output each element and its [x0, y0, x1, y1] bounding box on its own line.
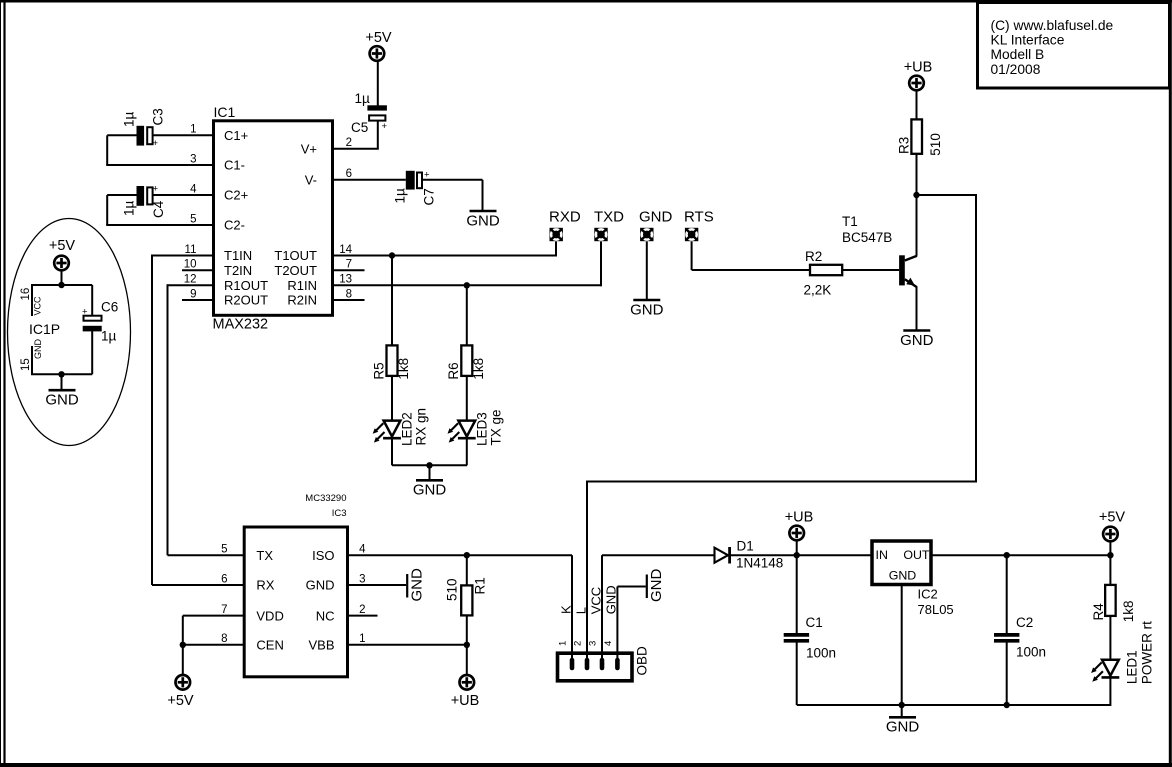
- resistor R6: [446, 345, 486, 379]
- svg-text:16: 16: [20, 288, 32, 301]
- svg-text:R2OUT: R2OUT: [224, 293, 268, 308]
- svg-text:TX: TX: [256, 548, 273, 563]
- wire IC1 pin9 stub: [182, 299, 213, 301]
- svg-text:2: 2: [359, 604, 365, 616]
- svg-text:GND: GND: [648, 569, 665, 603]
- svg-text:R6: R6: [446, 362, 461, 379]
- ground rail: [797, 704, 1111, 706]
- wire to R4: [1109, 555, 1111, 585]
- wire C5 to IC1 pin2 V+: [333, 121, 379, 149]
- svg-text:11: 11: [185, 244, 197, 256]
- svg-text:GND: GND: [306, 578, 335, 593]
- svg-text:T1: T1: [842, 214, 858, 229]
- svg-text:5: 5: [221, 544, 227, 556]
- svg-text:9: 9: [190, 288, 196, 300]
- svg-text:6: 6: [346, 168, 352, 180]
- capacitor C4: [122, 184, 167, 219]
- wire D1 to IC2 IN: [731, 554, 873, 556]
- wire IC3 GND pin3: [348, 584, 407, 586]
- wire L line down: [586, 481, 588, 662]
- svg-text:POWER rt: POWER rt: [1139, 621, 1154, 684]
- svg-text:+UB: +UB: [904, 60, 933, 76]
- ground (C7): [466, 211, 500, 229]
- svg-text:15: 15: [20, 358, 32, 371]
- svg-text:13: 13: [339, 274, 352, 286]
- svg-text:IN: IN: [876, 548, 888, 562]
- capacitor C7: [393, 170, 437, 206]
- svg-text:01/2008: 01/2008: [991, 62, 1041, 77]
- svg-text:VBB: VBB: [308, 638, 334, 653]
- svg-text:GND: GND: [889, 568, 917, 582]
- +UB supply (R1): [451, 675, 480, 709]
- IC1P power pins group ellipse: [8, 219, 131, 446]
- junction R1 top: [464, 552, 470, 558]
- svg-text:MC33290: MC33290: [305, 493, 346, 504]
- svg-text:RTS: RTS: [684, 209, 714, 226]
- wire C7 to ground: [423, 180, 483, 211]
- svg-text:1µ: 1µ: [393, 188, 408, 204]
- svg-text:+5V: +5V: [365, 30, 392, 46]
- svg-text:NC: NC: [316, 608, 335, 623]
- wire IC1 pin6 V- to C7: [333, 179, 406, 181]
- junction VDD/CEN: [180, 642, 186, 648]
- svg-text:R4: R4: [1091, 603, 1106, 621]
- junction rail/C2: [1004, 702, 1010, 708]
- svg-text:C1+: C1+: [224, 128, 248, 143]
- capacitor C1: [784, 615, 836, 661]
- svg-text:Modell B: Modell B: [991, 47, 1045, 62]
- LED LED2 (RX gn): [373, 408, 429, 446]
- svg-text:7: 7: [221, 604, 227, 616]
- IC IC3 MC33290: [244, 493, 347, 677]
- wire K line down: [571, 555, 573, 661]
- wire R6 to LED3: [466, 376, 468, 438]
- svg-text:RXD: RXD: [549, 209, 581, 226]
- wire to ground: [901, 705, 903, 717]
- wire T1OUT to RXD: [333, 242, 556, 257]
- svg-text:2: 2: [573, 641, 584, 646]
- svg-text:3: 3: [588, 641, 599, 646]
- svg-text:3: 3: [359, 573, 365, 585]
- svg-text:RX gn: RX gn: [414, 408, 429, 446]
- wire GND pad down: [646, 242, 648, 300]
- svg-text:V+: V+: [301, 141, 317, 156]
- capacitor C2: [994, 615, 1046, 660]
- svg-text:1N4148: 1N4148: [736, 556, 783, 571]
- svg-text:LED2: LED2: [400, 412, 415, 446]
- svg-text:T2OUT: T2OUT: [274, 263, 317, 278]
- +5V supply (IC1P): [49, 238, 76, 270]
- svg-text:RX: RX: [256, 578, 274, 593]
- junction +UB/C1: [794, 552, 800, 558]
- wire R2 to T1 base: [842, 269, 899, 271]
- svg-text:1k8: 1k8: [471, 358, 486, 380]
- wire RTS to R2: [692, 242, 810, 271]
- wire LED2 to ground rail: [392, 439, 467, 465]
- ground (LEDs): [413, 480, 447, 498]
- svg-text:R2IN: R2IN: [287, 293, 317, 308]
- svg-text:V-: V-: [305, 173, 317, 188]
- wire IC1 pin10 stub: [182, 269, 213, 271]
- OBD pins: [572, 660, 617, 668]
- svg-text:C4: C4: [151, 200, 166, 218]
- svg-text:4: 4: [190, 183, 197, 195]
- svg-text:+UB: +UB: [785, 510, 814, 526]
- svg-text:C6: C6: [101, 300, 118, 315]
- ground (T1 emitter): [900, 331, 934, 349]
- svg-text:+: +: [153, 138, 159, 149]
- svg-text:R5: R5: [371, 362, 386, 379]
- svg-text:T1IN: T1IN: [224, 248, 252, 263]
- IC1 pin names: [224, 128, 317, 308]
- svg-text:D1: D1: [737, 539, 754, 554]
- svg-text:GND: GND: [33, 339, 43, 360]
- svg-text:R1IN: R1IN: [287, 278, 317, 293]
- svg-text:GND: GND: [886, 719, 920, 736]
- svg-text:GND: GND: [466, 212, 500, 229]
- svg-text:C5: C5: [351, 120, 368, 135]
- svg-text:+: +: [82, 307, 88, 318]
- svg-text:R1OUT: R1OUT: [224, 278, 268, 293]
- pad GND: [639, 209, 673, 242]
- capacitor C3: [122, 108, 166, 149]
- svg-text:510: 510: [445, 578, 460, 601]
- ground (RS232): [630, 300, 664, 318]
- junction collector node: [913, 192, 919, 198]
- svg-text:CEN: CEN: [256, 638, 283, 653]
- svg-text:+5V: +5V: [167, 693, 194, 709]
- svg-text:MAX232: MAX232: [213, 317, 269, 333]
- svg-text:KL Interface: KL Interface: [991, 33, 1065, 48]
- wire C1 to rail: [796, 643, 798, 706]
- wire R1: [466, 555, 468, 645]
- svg-text:C2: C2: [1016, 615, 1033, 630]
- svg-text:1: 1: [558, 641, 569, 646]
- wire +UB down: [796, 540, 798, 555]
- svg-text:+: +: [153, 184, 159, 195]
- wire R1OUT to IC3 TX: [168, 284, 245, 555]
- wire to C2: [1006, 555, 1008, 633]
- svg-text:2: 2: [346, 137, 352, 149]
- svg-text:GND: GND: [413, 482, 447, 499]
- wire T1IN to IC3 RX: [152, 255, 244, 586]
- +5V supply (right): [1099, 510, 1126, 542]
- junction IC1P vcc: [58, 282, 64, 288]
- svg-text:LED1: LED1: [1125, 650, 1140, 684]
- wire IC3 VDD to CEN: [183, 616, 244, 645]
- svg-text:OUT: OUT: [903, 548, 930, 562]
- wire T1 emitter: [916, 287, 918, 331]
- svg-text:C7: C7: [422, 188, 437, 205]
- wire IC1P to ground: [61, 374, 63, 389]
- ground (OBD pin4, rotated): [647, 569, 665, 603]
- svg-text:6: 6: [221, 573, 227, 585]
- svg-text:1µ: 1µ: [355, 91, 371, 106]
- junction +5V/R4: [1107, 552, 1113, 558]
- IC1P pins: [20, 284, 92, 375]
- wire +UB to R3: [916, 91, 918, 120]
- svg-text:BC547B: BC547B: [842, 230, 892, 245]
- diode D1 1N4148: [715, 539, 784, 571]
- svg-text:1k8: 1k8: [1121, 601, 1136, 623]
- wire IC3 VBB: [348, 644, 467, 646]
- svg-text:100n: 100n: [1016, 645, 1046, 660]
- svg-text:VDD: VDD: [256, 608, 283, 623]
- svg-text:LED3: LED3: [474, 412, 489, 446]
- resistor R1: [445, 577, 488, 615]
- wire VBB to +UB: [466, 645, 468, 675]
- svg-text:12: 12: [184, 274, 197, 286]
- wire C2 to rail: [1006, 643, 1008, 706]
- pad RTS: [684, 209, 714, 242]
- wire R4 to LED1: [1109, 616, 1111, 677]
- svg-text:8: 8: [346, 288, 352, 300]
- svg-text:+5V: +5V: [49, 238, 76, 254]
- junction R6/R1IN: [464, 282, 470, 288]
- OBD pin numbers: [558, 641, 614, 646]
- wire LED3 to ground rail: [466, 439, 468, 465]
- resistor R4: [1091, 585, 1136, 622]
- title block: [978, 3, 1170, 89]
- svg-text:5: 5: [190, 213, 196, 225]
- IC3 pin numbers: [221, 544, 366, 646]
- svg-text:510: 510: [928, 133, 943, 156]
- svg-text:OBD: OBD: [635, 646, 650, 676]
- svg-text:IC1P: IC1P: [29, 321, 60, 337]
- svg-text:100n: 100n: [806, 646, 836, 661]
- wire VCC line: [602, 555, 715, 661]
- wire collector to L-line: [587, 194, 977, 482]
- svg-text:10: 10: [184, 259, 197, 271]
- svg-text:(C) www.blafusel.de: (C) www.blafusel.de: [991, 18, 1114, 33]
- svg-text:+: +: [382, 121, 388, 132]
- wire R5 to LED2: [391, 376, 393, 438]
- wire R1IN node to R6: [466, 285, 468, 346]
- svg-text:14: 14: [339, 244, 352, 256]
- svg-text:C1-: C1-: [224, 158, 245, 173]
- svg-text:3: 3: [190, 153, 196, 165]
- LED LED3 (TX ge): [448, 409, 504, 446]
- wire to +5V: [182, 645, 184, 675]
- capacitor C6: [82, 300, 118, 344]
- svg-text:GND: GND: [639, 209, 673, 226]
- svg-text:1µ: 1µ: [122, 200, 137, 216]
- svg-text:78L05: 78L05: [918, 602, 954, 617]
- IC IC2 78L05: [872, 541, 954, 617]
- IC3 pin names: [256, 548, 334, 653]
- wire to C1: [796, 555, 798, 633]
- svg-text:T2IN: T2IN: [224, 263, 252, 278]
- wire C4 to IC1 pin4/pin5: [106, 195, 213, 225]
- wire to ground: [429, 465, 431, 480]
- svg-text:C2-: C2-: [224, 218, 245, 233]
- svg-text:4: 4: [359, 544, 366, 556]
- svg-text:1k8: 1k8: [396, 358, 411, 380]
- junction R5/T1OUT: [389, 252, 395, 258]
- svg-text:TX ge: TX ge: [488, 409, 503, 445]
- resistor R3: [896, 119, 942, 155]
- wire IC1 pin7 stub: [333, 269, 365, 271]
- connector OBD: [558, 646, 650, 681]
- IC IC1 MAX232: [213, 104, 333, 333]
- LED LED1 (POWER rt): [1091, 621, 1154, 684]
- wire IC2 GND down: [901, 585, 903, 706]
- wire IC1 pin8 stub: [333, 299, 365, 301]
- wire LED1 to rail: [1109, 678, 1111, 706]
- wire R3 to collector node: [916, 154, 918, 196]
- svg-text:C1: C1: [806, 615, 823, 630]
- svg-text:1µ: 1µ: [101, 329, 117, 344]
- IC1 pin numbers: [184, 124, 353, 301]
- resistor R2: [804, 249, 843, 298]
- svg-text:2,2K: 2,2K: [804, 283, 832, 298]
- junction C2 top: [1004, 552, 1010, 558]
- svg-text:R2: R2: [805, 249, 822, 264]
- ground (IC3 pin3, rotated): [407, 568, 425, 602]
- +UB supply (top): [904, 60, 933, 91]
- svg-text:GND: GND: [900, 332, 934, 349]
- wire +5V to IC1P: [61, 271, 63, 286]
- svg-text:IC3: IC3: [332, 508, 347, 519]
- wire T1OUT node to R5: [391, 256, 393, 347]
- svg-text:GND: GND: [408, 568, 425, 602]
- svg-text:C2+: C2+: [224, 188, 248, 203]
- svg-text:1: 1: [190, 124, 196, 136]
- svg-text:GND: GND: [630, 301, 664, 318]
- +5V supply (top): [365, 30, 392, 61]
- wire IC3 ISO / K-line: [348, 554, 573, 556]
- svg-text:GND: GND: [45, 392, 79, 409]
- wire R1IN to TXD: [333, 242, 601, 287]
- svg-text:8: 8: [221, 633, 227, 645]
- wire C3 to IC1 pin1: [106, 135, 213, 165]
- capacitor C5: [351, 91, 388, 135]
- wire IC2 OUT: [931, 554, 1110, 556]
- wire OBD GND pin4: [617, 587, 645, 662]
- +UB supply (D1): [785, 510, 814, 541]
- junction LED ground: [426, 462, 432, 468]
- svg-text:R3: R3: [896, 137, 911, 154]
- svg-text:R1: R1: [472, 577, 487, 594]
- svg-text:7: 7: [346, 259, 352, 271]
- svg-text:IC2: IC2: [918, 587, 938, 602]
- svg-text:+UB: +UB: [451, 693, 480, 709]
- wire IC3 NC stub: [348, 615, 378, 617]
- svg-text:+5V: +5V: [1099, 510, 1126, 526]
- svg-text:4: 4: [603, 641, 614, 646]
- junction R1 bottom / +UB: [464, 642, 470, 648]
- wire +5V to C5: [377, 61, 379, 106]
- ground (bottom): [886, 717, 920, 735]
- junction rail/IC2 gnd: [899, 702, 905, 708]
- svg-text:1µ: 1µ: [122, 111, 137, 127]
- svg-text:ISO: ISO: [312, 548, 334, 563]
- svg-text:VCC: VCC: [33, 296, 43, 316]
- svg-text:T1OUT: T1OUT: [274, 248, 317, 263]
- transistor T1 BC547B: [842, 214, 917, 287]
- wire +5V down: [1109, 542, 1111, 556]
- +5V supply (IC3): [167, 675, 194, 709]
- junction IC1P gnd: [58, 371, 64, 377]
- svg-text:TXD: TXD: [594, 209, 624, 226]
- pad RXD: [549, 209, 581, 242]
- resistor R5: [371, 345, 411, 379]
- wire T1 collector: [916, 194, 918, 256]
- svg-text:IC1: IC1: [214, 104, 236, 120]
- pad TXD: [594, 209, 624, 242]
- svg-text:1: 1: [359, 633, 365, 645]
- svg-text:C3: C3: [151, 108, 166, 125]
- ground (IC1P): [45, 390, 79, 408]
